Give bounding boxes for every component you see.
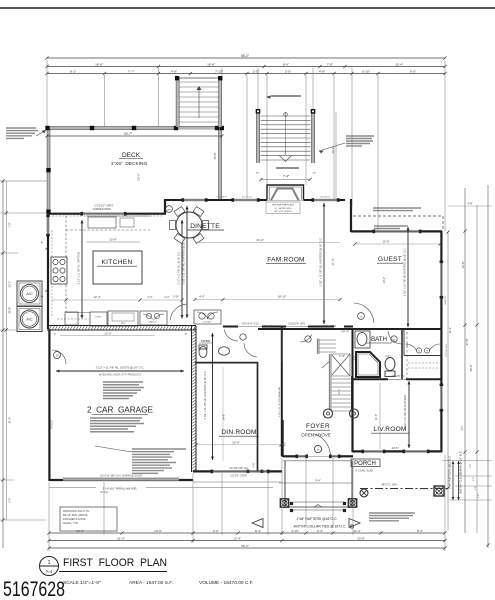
svg-text:UL - APPROVED: UL - APPROVED — [275, 207, 292, 210]
svg-text:CORNER WDW.: CORNER WDW. — [93, 208, 112, 211]
window liv bottom 1 — [363, 450, 384, 453]
svg-text:2440 P.O.: 2440 P.O. — [445, 295, 447, 305]
bath door arc — [388, 331, 401, 344]
wall guest top — [351, 230, 442, 232]
svg-text:W: W — [426, 351, 428, 353]
svg-text:4′-0″: 4′-0″ — [199, 295, 205, 299]
window dinette top — [183, 199, 206, 202]
svg-text:KITCHEN: KITCHEN — [101, 259, 132, 266]
svg-text:2 1/2″ x 11 7/8″ ML. RAFTERS @: 2 1/2″ x 11 7/8″ ML. RAFTERS @ 16″ O.C. — [319, 237, 323, 286]
svg-text:5′-10″: 5′-10″ — [339, 355, 345, 358]
svg-text:14′-6″: 14′-6″ — [223, 414, 226, 420]
svg-text:9′-4″: 9′-4″ — [315, 479, 321, 483]
svg-text:56′-2″: 56′-2″ — [241, 54, 250, 58]
svg-text:W/2″X4″ CLG./BEAMS @ 16″ O.C.: W/2″X4″ CLG./BEAMS @ 16″ O.C. — [459, 450, 463, 493]
svg-text:2 1/2″ x 11 7/8″ ML. RAFTERS @: 2 1/2″ x 11 7/8″ ML. RAFTERS @ 16″ O.C. — [203, 370, 207, 419]
svg-text:37′-8″: 37′-8″ — [465, 339, 469, 346]
porch dashdot line — [360, 488, 448, 490]
svg-text:7′-10″: 7′-10″ — [215, 69, 224, 73]
svg-text:OVEN: OVEN — [95, 317, 102, 319]
guest door arc — [354, 303, 374, 323]
svg-text:17′-4″: 17′-4″ — [331, 258, 335, 265]
wall west — [47, 213, 49, 329]
wall garage west — [48, 329, 50, 481]
pantry closet — [140, 311, 167, 325]
top dim tier2 — [47, 66, 445, 68]
deck railing top — [47, 126, 222, 129]
kitchen dim arrow right — [181, 220, 183, 319]
famroom dim arrow right — [323, 203, 325, 324]
svg-text:SCALE 1/4″=1′-0″: SCALE 1/4″=1′-0″ — [63, 580, 101, 586]
svg-text:3 1/2″ x 11 7/8″ ML JOISTS @ 1: 3 1/2″ x 11 7/8″ ML JOISTS @ 16″ O.C. — [96, 365, 145, 369]
svg-text:2 1/2″ x 11 7/8″ ML RAFTERS @: 2 1/2″ x 11 7/8″ ML RAFTERS @ 16″ O.C. — [403, 248, 407, 297]
closet2 — [194, 310, 221, 324]
svg-text:20′-0″: 20′-0″ — [104, 331, 111, 335]
svg-text:5167628: 5167628 — [3, 578, 65, 600]
porch outline — [283, 460, 352, 462]
deck dim 24'-7" — [47, 135, 222, 137]
svg-text:11′-0″: 11′-0″ — [374, 414, 378, 420]
svg-text:24′-7″: 24′-7″ — [124, 132, 133, 136]
wall famroom east — [350, 199, 352, 232]
svg-text:6′-6″: 6′-6″ — [410, 69, 417, 73]
bath sink — [355, 331, 370, 348]
corner window kitchen — [82, 212, 125, 215]
svg-text:6″: 6″ — [185, 333, 187, 336]
sheet border top — [0, 7, 495, 9]
kitchen counters dashed — [65, 216, 67, 312]
svg-text:8′-0″: 8′-0″ — [283, 62, 290, 66]
top dim extension lines — [46, 60, 48, 127]
svg-text:FINISHED FLOOR: FINISHED FLOOR — [63, 517, 86, 521]
svg-text:DINETTE: DINETTE — [190, 223, 220, 230]
windows sills note box — [60, 507, 117, 531]
svg-text:REF: REF — [121, 323, 126, 325]
svg-text:2″x8″ RAFTERS @16″O.C.: 2″x8″ RAFTERS @16″O.C. — [297, 517, 338, 521]
svg-text:21′-0″: 21′-0″ — [117, 536, 125, 540]
svg-text:2′-0″: 2′-0″ — [253, 69, 260, 73]
bath walls — [352, 329, 354, 380]
window famroom top 2 — [313, 199, 338, 202]
garage door to house arc — [52, 350, 66, 364]
svg-text:3′-6″: 3′-6″ — [353, 355, 356, 360]
svg-text:5′-10″: 5′-10″ — [362, 69, 371, 73]
svg-text:36′-8″: 36′-8″ — [8, 307, 12, 314]
svg-text:12′-8″: 12′-8″ — [382, 240, 389, 244]
right margin small dims — [442, 460, 492, 462]
svg-text:10′-6″: 10′-6″ — [154, 529, 162, 533]
svg-text:8′-4″: 8′-4″ — [255, 529, 261, 533]
lin closet — [404, 355, 441, 357]
svg-text:5/8″ GYP. NORTH: 5/8″ GYP. NORTH — [274, 211, 292, 213]
wall foyer bottom right — [331, 455, 340, 458]
svg-text:1′-4″: 1′-4″ — [478, 494, 480, 499]
wp outlet dinette — [166, 206, 173, 213]
wall liv/porch west short — [351, 380, 353, 452]
dinroom dim arrow — [212, 333, 214, 460]
svg-text:DECK: DECK — [122, 152, 141, 159]
famroom south wall — [223, 326, 238, 328]
svg-text:12′-4″: 12′-4″ — [395, 62, 404, 66]
dinette dim arrow — [186, 206, 188, 318]
svg-text:2′-8″: 2′-8″ — [173, 295, 179, 299]
svg-text:5 1/4″x16″ PARALLAM HDR.: 5 1/4″x16″ PARALLAM HDR. — [103, 486, 138, 490]
garage door band — [63, 478, 179, 481]
svg-text:PWDR.: PWDR. — [201, 339, 211, 343]
wall kitchen top — [47, 213, 166, 215]
pwdr door arc — [224, 329, 238, 341]
window liv bottom 2 — [404, 450, 428, 453]
svg-text:2 1/2″ x 11 7/8″ ML. RAFTERS @: 2 1/2″ x 11 7/8″ ML. RAFTERS @ 16″ O.C. — [182, 235, 186, 284]
svg-text:6′0″ P. 4.6: 6′0″ P. 4.6 — [242, 197, 252, 199]
deck post left bottom — [46, 210, 50, 214]
svg-text:13′-2″: 13′-2″ — [382, 277, 386, 284]
porch post far right — [434, 486, 444, 496]
porch column note — [369, 512, 415, 514]
porch column circle — [360, 489, 368, 497]
svg-text:12′-4″: 12′-4″ — [233, 536, 241, 540]
svg-text:P.O′6/8″ SILL: P.O′6/8″ SILL — [446, 343, 448, 357]
svg-text:32′-1″: 32′-1″ — [8, 281, 12, 288]
svg-text:13′-6″: 13′-6″ — [461, 262, 465, 269]
svg-text:4′-2″: 4′-2″ — [165, 296, 170, 299]
window kitchen west — [47, 216, 50, 235]
understair closet door — [300, 335, 312, 343]
svg-text:FIRST FLOOR PLAN: FIRST FLOOR PLAN — [63, 557, 167, 569]
svg-text:2 1/2″ x 11 7/8″ ML. @ 16″ O.C: 2 1/2″ x 11 7/8″ ML. @ 16″ O.C. — [178, 251, 181, 285]
svg-text:PORCH: PORCH — [354, 461, 376, 467]
window dinroom bay — [212, 470, 268, 473]
svg-text:2′8″x6′8″ DR: 2′8″x6′8″ DR — [392, 376, 405, 378]
svg-text:2′-8″: 2′-8″ — [470, 464, 472, 469]
svg-text:7′-8″: 7′-8″ — [327, 62, 334, 66]
porch steps — [293, 501, 345, 503]
svg-text:13′-6″: 13′-6″ — [391, 446, 398, 450]
dinette table — [176, 212, 202, 238]
front door arc — [313, 434, 330, 455]
svg-text:BE 24″ MIN. ABOVE: BE 24″ MIN. ABOVE — [63, 513, 88, 517]
svg-text:A-4: A-4 — [46, 569, 53, 574]
window guest east — [440, 262, 443, 297]
svg-text:15′-8″: 15′-8″ — [109, 238, 117, 242]
window liv east — [440, 385, 443, 410]
svg-text:WINDOWS SILLS TO: WINDOWS SILLS TO — [63, 509, 89, 513]
top dim tier3 — [47, 73, 445, 75]
svg-text:2 1/2″ x 11 7/8″ ML PARALLAM: 2 1/2″ x 11 7/8″ ML PARALLAM — [278, 387, 281, 418]
svg-text:4′-8″: 4′-8″ — [467, 202, 472, 206]
wall dinroom bay — [193, 470, 282, 472]
right rafter dim arrows — [452, 461, 454, 500]
svg-text:7′-4″: 7′-4″ — [283, 175, 290, 179]
svg-text:4′-10″: 4′-10″ — [291, 529, 299, 533]
svg-text:31′-2″: 31′-2″ — [256, 238, 264, 242]
garage fire wall east hatched — [191, 326, 193, 472]
right dim ticks — [463, 229, 466, 232]
svg-text:11′-0″: 11′-0″ — [449, 327, 452, 333]
svg-text:4′-1″: 4′-1″ — [284, 441, 287, 446]
kitchen range — [51, 257, 67, 284]
kitchen island with label — [93, 251, 142, 284]
svg-text:11′-4″: 11′-4″ — [353, 529, 360, 533]
wall jog dinette — [164, 199, 166, 215]
svg-text:FOYER: FOYER — [306, 423, 330, 430]
guest south wall — [352, 328, 441, 330]
svg-text:60″x54″x58″ DH.: 60″x54″x58″ DH. — [229, 466, 248, 470]
bath shower — [356, 352, 380, 377]
garage fire sep note — [90, 417, 142, 419]
svg-text:8′-0″: 8′-0″ — [462, 426, 464, 431]
deck stairs — [176, 78, 179, 127]
garage firewall note — [132, 448, 186, 450]
svg-text:1″X6″ DECKING: 1″X6″ DECKING — [111, 161, 148, 167]
svg-text:3P: 3P — [317, 450, 320, 452]
svg-text:1′-8″: 1′-8″ — [475, 486, 477, 491]
svg-text:1: 1 — [48, 560, 51, 566]
deck railing right — [218, 128, 221, 199]
livroom dim arrow — [408, 381, 410, 448]
egress note — [374, 225, 408, 227]
svg-text:W/ BOARD OVER (TYP. PRODUCT): W/ BOARD OVER (TYP. PRODUCT) — [99, 373, 142, 377]
svg-text:30″: 30″ — [313, 173, 316, 175]
svg-text:12′-2″: 12′-2″ — [137, 173, 141, 181]
svg-text:8′-1″: 8′-1″ — [70, 69, 77, 73]
hall door arc — [170, 304, 186, 320]
svg-text:LEVEL, TYP.: LEVEL, TYP. — [63, 521, 79, 525]
svg-text:4′-8″: 4′-8″ — [171, 69, 178, 73]
overhang dashed — [353, 215, 443, 217]
svg-text:4′-8″: 4′-8″ — [319, 69, 326, 73]
svg-text:FAM.ROOM: FAM.ROOM — [267, 257, 305, 264]
svg-text:9′-0 1/2″: 9′-0 1/2″ — [51, 419, 54, 428]
svg-text:CASED′4″ OPG.: CASED′4″ OPG. — [288, 323, 306, 326]
left dim lines — [2, 181, 4, 548]
deck railing top edges — [47, 126, 222, 128]
svg-text:48″CTC. OR—: 48″CTC. OR— — [381, 483, 398, 487]
svg-text:36″ R: 36″ R — [339, 389, 341, 395]
bottom dim extensions — [103, 482, 105, 535]
wall foyer bottom left — [283, 455, 297, 457]
overhang note — [373, 207, 421, 209]
svg-text:2′-0″: 2′-0″ — [8, 497, 12, 502]
porch post right — [348, 499, 356, 507]
fireplace bay — [267, 185, 304, 200]
svg-text:PRE-FAB FIREPLACE: PRE-FAB FIREPLACE — [272, 204, 295, 207]
entry stair — [256, 111, 259, 163]
pwdr toilet — [199, 347, 207, 358]
svg-text:7′-7″: 7′-7″ — [128, 69, 135, 73]
deck posts right — [215, 126, 219, 130]
svg-text:8″: 8″ — [40, 295, 44, 297]
deck post left mid — [46, 168, 50, 172]
fireplace note — [266, 202, 300, 214]
deck railing left — [47, 127, 50, 214]
main stair — [317, 339, 320, 354]
svg-text:56′-2″: 56′-2″ — [241, 544, 249, 548]
kitchen counter top solid — [86, 215, 150, 217]
svg-text:18′-10″: 18′-10″ — [278, 295, 287, 299]
svg-text:1′-4″: 1′-4″ — [473, 477, 475, 482]
svg-text:DIN.ROOM: DIN.ROOM — [221, 429, 256, 436]
entry stair top note — [271, 95, 301, 97]
svg-text:8′-4″: 8′-4″ — [417, 529, 423, 533]
garage fire wall north hatched — [47, 325, 196, 327]
svg-text:BATH: BATH — [371, 336, 387, 343]
svg-text:AREA - 1647.00 S.F.: AREA - 1647.00 S.F. — [129, 580, 173, 586]
svg-text:1 1/2″ x 11 7/8″ ML RAFTERS: 1 1/2″ x 11 7/8″ ML RAFTERS — [403, 395, 407, 430]
svg-text:4′-6″: 4′-6″ — [253, 462, 256, 467]
svg-text:4′-6″: 4′-6″ — [385, 355, 390, 358]
svg-text:45′-4″: 45′-4″ — [469, 365, 473, 372]
svg-text:PANTRY: PANTRY — [149, 321, 158, 324]
title circle — [40, 557, 59, 576]
svg-text:15′-8″: 15′-8″ — [213, 152, 217, 159]
entry stair railing note — [346, 135, 374, 137]
right dim lines — [447, 232, 449, 530]
svg-text:23′-8″: 23′-8″ — [357, 536, 365, 540]
deck posts on top rail — [45, 126, 49, 130]
svg-text:OPEN ABOVE: OPEN ABOVE — [301, 433, 331, 438]
svg-text:13′-6″: 13′-6″ — [232, 441, 240, 445]
window famroom top 1 — [233, 199, 258, 202]
bottom dim tier1 — [49, 532, 445, 534]
wall east — [440, 231, 442, 452]
pwdr sink — [219, 347, 230, 355]
svg-text:7′-2″: 7′-2″ — [8, 222, 12, 227]
entry stair riser note — [276, 167, 299, 169]
svg-text:4′-2″: 4′-2″ — [148, 296, 153, 299]
svg-text:LIN.: LIN. — [406, 342, 409, 347]
svg-text:20′0″x6′-8″ CSD: 20′0″x6′-8″ CSD — [242, 323, 259, 326]
svg-text:CLOSET: CLOSET — [203, 322, 212, 324]
top dim tier1 overall 56'-2" — [47, 57, 445, 59]
bottom dim tier3 — [49, 547, 445, 549]
dinette chairs — [174, 233, 185, 243]
svg-text:6′-4″: 6′-4″ — [317, 529, 323, 533]
wall liv bottom — [352, 450, 442, 452]
svg-text:A/C: A/C — [26, 292, 33, 296]
svg-text:16R UP: 16R UP — [341, 331, 349, 333]
svg-text:2 CAR GARAGE: 2 CAR GARAGE — [87, 406, 154, 415]
svg-text:WP: WP — [167, 209, 171, 211]
hall wall upper — [281, 326, 283, 362]
svg-text:D: D — [56, 353, 58, 357]
svg-text:6″: 6″ — [54, 333, 56, 336]
hall door arc2 — [244, 343, 257, 357]
dinroom aux lines — [222, 367, 224, 461]
svg-text:2′-0″: 2′-0″ — [285, 69, 292, 73]
svg-text:VOLUME - 16470.00 C.F.: VOLUME - 16470.00 C.F. — [199, 580, 253, 586]
svg-text:4″ CONC. SLAB: 4″ CONC. SLAB — [355, 470, 373, 473]
window guest top — [374, 230, 420, 233]
wall garage bottom — [49, 479, 193, 481]
garage parallam label — [96, 486, 146, 490]
svg-text:2″x8″ RAFTERS @16″O.C.: 2″x8″ RAFTERS @16″O.C. — [448, 455, 452, 489]
kitchen dim arrows left — [81, 220, 83, 319]
svg-text:2P: 2P — [360, 316, 363, 318]
ac units — [17, 281, 42, 306]
grade line under din room — [193, 481, 282, 483]
svg-text:18′-8″: 18′-8″ — [207, 62, 216, 66]
svg-text:2P: 2P — [393, 339, 396, 341]
svg-text:2′4″x4′6″ P.: 2′4″x4′6″ P. — [320, 197, 331, 199]
svg-text:6′-0″: 6′-0″ — [213, 529, 219, 533]
kitchen appliances row — [65, 312, 78, 325]
svg-text:GUEST: GUEST — [378, 256, 402, 263]
bath toilet — [385, 358, 395, 371]
svg-text:CO′3′4″ CSMT.: CO′3′4″ CSMT. — [230, 474, 247, 478]
garage joist arrow — [56, 370, 184, 372]
svg-text:31′-4″: 31′-4″ — [8, 417, 12, 424]
wall foyer west — [282, 420, 284, 457]
porch step posts — [290, 502, 293, 505]
porch post left — [280, 499, 288, 507]
deck railing note — [6, 127, 36, 129]
grade line y487 — [49, 487, 273, 489]
left dim ticks — [1, 179, 4, 182]
garage slab note — [103, 381, 143, 383]
svg-text:2′6″x6′8″: 2′6″x6′8″ — [264, 326, 273, 328]
svg-text:LIV.ROOM: LIV.ROOM — [373, 426, 406, 433]
svg-text:18′-8″: 18′-8″ — [95, 62, 104, 66]
guest dim arrow — [407, 227, 409, 327]
svg-text:30″: 30″ — [256, 173, 259, 175]
svg-text:12′-4″: 12′-4″ — [93, 295, 100, 299]
svg-text:W: W — [418, 351, 420, 353]
svg-text:2′8″x6′8″ DR: 2′8″x6′8″ DR — [324, 326, 337, 328]
svg-text:6″: 6″ — [40, 241, 44, 243]
hall walls — [257, 362, 259, 471]
svg-text:A/C: A/C — [26, 318, 33, 322]
bottom dim tier2 — [49, 540, 445, 542]
svg-text:2 1/2″ x 11 7/8″ ML. RAFTERS: 2 1/2″ x 11 7/8″ ML. RAFTERS — [78, 251, 81, 284]
svg-text:12′-6″: 12′-6″ — [331, 146, 335, 153]
wall dinette/fam top — [165, 199, 267, 201]
svg-text:2′4″x4′6″ P.: 2′4″x4′6″ P. — [217, 197, 228, 199]
